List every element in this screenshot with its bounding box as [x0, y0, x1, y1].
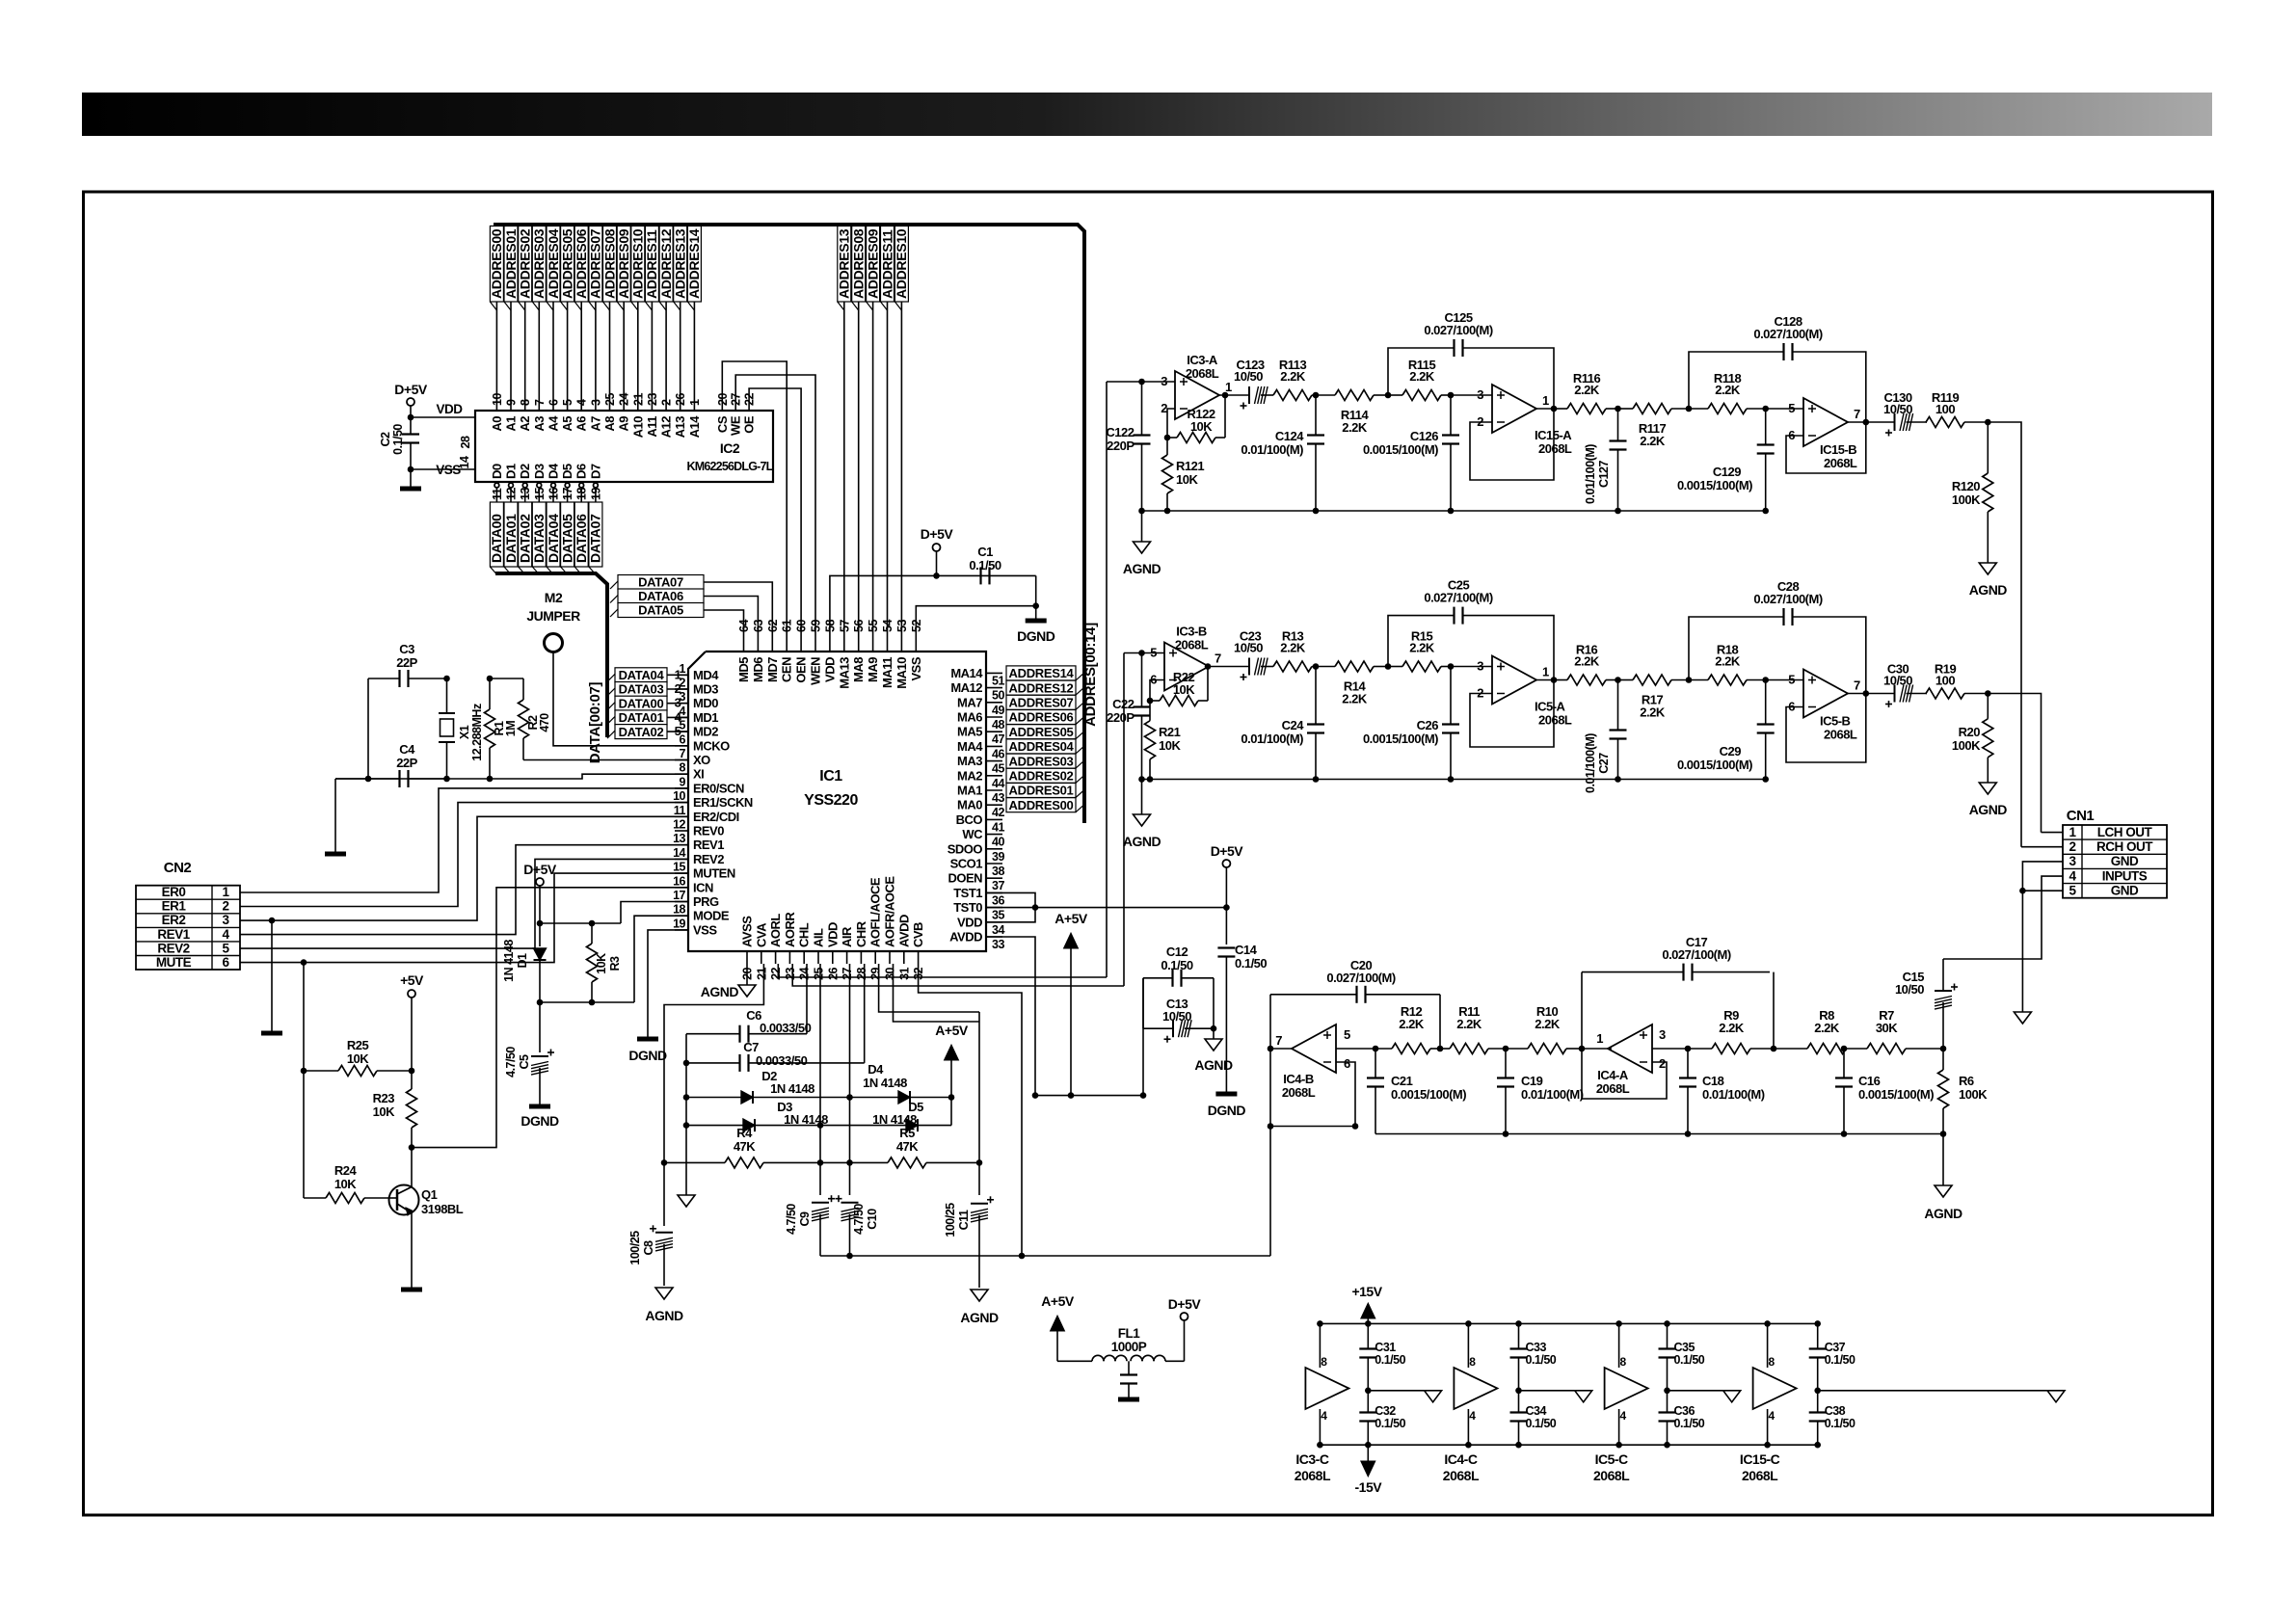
svg-text:33: 33: [992, 938, 1004, 951]
wire REV0 branch: [269, 918, 276, 924]
node ADDRES02 (IC1 MA): [1006, 768, 1076, 783]
node ADDRES11 (bus tap to IC2 A11): [651, 225, 653, 410]
svg-text:REV2: REV2: [693, 852, 724, 866]
svg-text:9: 9: [680, 775, 686, 788]
ground AGND (AVSS pin20): [746, 964, 748, 985]
svg-text:19: 19: [673, 917, 685, 930]
svg-text:C26: C26: [1417, 718, 1439, 732]
svg-text:10K: 10K: [1176, 472, 1198, 487]
wire row2 input: [1123, 652, 1125, 654]
wire row3 right chain: [1652, 1048, 1688, 1050]
wire IC5-A feedback box: [1470, 680, 1554, 748]
node ADDRES12 (bus tap to IC2 A12): [665, 225, 667, 410]
svg-text:PRG: PRG: [693, 894, 719, 909]
svg-text:C124: C124: [1275, 429, 1304, 443]
svg-text:10/50: 10/50: [1895, 982, 1924, 997]
node ADDRES01 (bus tap to IC2 A1): [510, 225, 512, 410]
capacitor C11 100/25: [971, 1203, 988, 1205]
svg-text:CS: CS: [715, 415, 730, 433]
svg-text:100/25: 100/25: [944, 1203, 957, 1237]
svg-text:MUTE: MUTE: [156, 955, 192, 970]
svg-text:2: 2: [1659, 1056, 1666, 1071]
node ADDRES08 (bus tap to IC2 A8): [609, 225, 611, 410]
node ADDRES14 (IC1 MA): [1006, 666, 1076, 680]
svg-text:C38: C38: [1825, 1404, 1846, 1418]
svg-text:REV0: REV0: [693, 824, 724, 838]
svg-text:DATA[00:07]: DATA[00:07]: [587, 681, 603, 763]
svg-text:ADDRES12: ADDRES12: [658, 228, 674, 299]
svg-text:7: 7: [1854, 678, 1860, 693]
ground AGND (C8): [655, 1288, 673, 1299]
svg-text:1: 1: [1542, 665, 1549, 679]
capacitor C22 220P: [1142, 652, 1165, 654]
svg-text:2068L: 2068L: [1593, 1468, 1630, 1483]
svg-text:IC15-B: IC15-B: [1820, 442, 1856, 457]
svg-text:ADDRES01: ADDRES01: [503, 228, 519, 299]
wire VDD58 / C1 rail: [830, 575, 1036, 636]
svg-text:0.01/100(M): 0.01/100(M): [1241, 732, 1303, 746]
svg-text:28: 28: [855, 967, 868, 979]
svg-text:MD3: MD3: [693, 682, 718, 697]
svg-text:D+5V: D+5V: [394, 382, 428, 397]
wire D1/R3 top: [540, 922, 621, 924]
svg-text:C22: C22: [1112, 697, 1135, 711]
node ADDRES02 (bus tap to IC2 A2): [524, 225, 526, 410]
svg-text:2068L: 2068L: [1186, 366, 1219, 381]
svg-text:100K: 100K: [1952, 738, 1981, 753]
svg-text:DATA00: DATA00: [619, 696, 664, 710]
svg-text:D+5V: D+5V: [1211, 843, 1244, 859]
svg-text:MA0: MA0: [957, 798, 982, 812]
wire REV2 to IC1 pin14: [240, 859, 688, 948]
svg-text:D7: D7: [588, 464, 602, 479]
svg-text:MA10: MA10: [894, 657, 909, 689]
svg-text:DATA02: DATA02: [518, 514, 533, 563]
svg-text:VSS: VSS: [909, 656, 923, 680]
svg-text:D+5V: D+5V: [921, 526, 954, 542]
svg-text:36: 36: [992, 893, 1004, 907]
capacitor C32 0.1/50: [1359, 1411, 1376, 1413]
svg-text:27: 27: [841, 967, 854, 979]
svg-text:ADDRES02: ADDRES02: [1009, 769, 1074, 784]
svg-text:41: 41: [992, 820, 1004, 834]
svg-text:A2: A2: [518, 416, 532, 432]
ground (decoupling C33/C34): [1519, 1390, 1584, 1392]
node DATA03 (IC1 pin 2): [615, 682, 667, 697]
wire IC15-A feedback box: [1470, 409, 1554, 480]
svg-text:2.2K: 2.2K: [1535, 1017, 1561, 1031]
ground (decoupling C37/C38): [1818, 1390, 2056, 1392]
resistor R117 2.2K: [1618, 408, 1634, 410]
node DATA07 (IC2 D7): [594, 483, 599, 488]
svg-text:IC5-A: IC5-A: [1535, 700, 1566, 714]
svg-text:C11: C11: [957, 1210, 971, 1230]
svg-text:2.2K: 2.2K: [1574, 383, 1600, 397]
svg-text:6: 6: [1344, 1056, 1350, 1071]
power -15V: [1367, 1445, 1369, 1461]
svg-text:ADDRES13: ADDRES13: [837, 228, 852, 299]
wire AVDD33 to A+5V rail: [986, 937, 1035, 1096]
svg-text:DATA05: DATA05: [638, 603, 683, 618]
node ADDRES06 (bus tap to IC2 A6): [580, 225, 582, 410]
op-amp IC3-A 2068L: [1175, 371, 1219, 419]
svg-text:8: 8: [519, 399, 532, 406]
op-amp IC4-A 2068L: [1608, 1024, 1652, 1073]
svg-text:R121: R121: [1176, 459, 1204, 473]
svg-text:IC2: IC2: [720, 440, 740, 456]
svg-text:50: 50: [992, 689, 1004, 703]
svg-text:2068L: 2068L: [1824, 456, 1857, 470]
wire M2 to MCKO: [553, 652, 688, 746]
svg-text:4: 4: [1321, 1409, 1327, 1423]
node DATA06 (IC2 D6): [579, 483, 584, 488]
svg-text:4: 4: [575, 399, 589, 406]
svg-text:D1: D1: [504, 464, 519, 479]
svg-text:17: 17: [673, 889, 685, 902]
svg-text:29: 29: [869, 967, 883, 979]
svg-text:C14: C14: [1235, 943, 1258, 957]
svg-text:47: 47: [992, 732, 1004, 746]
svg-text:DGND: DGND: [521, 1113, 559, 1129]
svg-text:0.1/50: 0.1/50: [391, 424, 405, 455]
svg-text:2.2K: 2.2K: [1409, 641, 1435, 655]
svg-text:43: 43: [992, 791, 1004, 805]
svg-text:RCH OUT: RCH OUT: [2096, 839, 2153, 854]
resistor R13 2.2K: [1272, 666, 1274, 668]
svg-text:1N 4148: 1N 4148: [863, 1076, 907, 1090]
node DATA01 (IC2 D1): [509, 483, 514, 488]
svg-text:2.2K: 2.2K: [1280, 641, 1306, 655]
svg-text:ADDRES00: ADDRES00: [489, 228, 504, 299]
svg-text:AVDD: AVDD: [896, 915, 911, 947]
svg-text:MA1: MA1: [957, 784, 982, 798]
svg-text:JUMPER: JUMPER: [526, 608, 580, 624]
svg-text:ADDRES03: ADDRES03: [1009, 754, 1074, 768]
capacitor C23 10/50: [1209, 666, 1249, 668]
svg-text:MODE: MODE: [693, 909, 730, 923]
capacitor C36 0.1/50: [1659, 1411, 1676, 1413]
ground (FL1): [1118, 1397, 1139, 1402]
svg-text:D4: D4: [868, 1062, 884, 1077]
svg-text:A+5V: A+5V: [935, 1023, 969, 1038]
svg-text:220P: 220P: [1107, 710, 1135, 725]
svg-text:AGND: AGND: [1123, 561, 1161, 576]
wire ER1 to IC1 pin10: [240, 803, 688, 907]
svg-text:ADDRES09: ADDRES09: [616, 228, 631, 299]
node DATA04 (IC2 D4): [551, 483, 556, 488]
svg-text:25: 25: [813, 967, 826, 979]
op-amp IC5-B 2068L: [1766, 679, 1803, 681]
wire TST1/TST0/VDD to D+5V: [986, 892, 1035, 921]
node ADDRES13 (bus tap to IC1): [843, 225, 845, 636]
power D+5V (C1): [933, 544, 941, 551]
svg-text:4: 4: [1469, 1409, 1476, 1423]
wire ER2 to IC1 pin11: [240, 816, 688, 920]
diode D1 1N4148: [539, 923, 541, 946]
svg-text:3: 3: [680, 690, 686, 704]
capacitor C9 4.7/50: [812, 1202, 829, 1204]
capacitor C2: [402, 433, 419, 435]
svg-text:-15V: -15V: [1355, 1479, 1383, 1495]
svg-text:VDD: VDD: [825, 922, 840, 947]
node ADDRES01 (IC1 MA): [1006, 784, 1076, 798]
power D+5V (TST): [1222, 860, 1230, 867]
svg-text:2.2K: 2.2K: [1280, 369, 1306, 384]
wire MUTE to IC1 pin15 MUTEN: [240, 873, 688, 963]
svg-text:AOFR/AOCE: AOFR/AOCE: [883, 876, 897, 947]
svg-text:2068L: 2068L: [1596, 1081, 1630, 1096]
svg-text:62: 62: [766, 620, 780, 632]
ground (decoupling C31/C32): [1368, 1390, 1432, 1392]
svg-text:MD2: MD2: [693, 725, 718, 739]
svg-text:10/50: 10/50: [1162, 1009, 1191, 1024]
capacitor C18 0.01/100(M): [1679, 1077, 1696, 1078]
svg-text:0.01/100(M): 0.01/100(M): [1584, 733, 1597, 793]
wire MODE pin18: [634, 916, 688, 1002]
node DATA03 (IC2 D3): [537, 483, 542, 488]
svg-text:10: 10: [491, 393, 504, 406]
svg-text:0.1/50: 0.1/50: [1825, 1353, 1855, 1367]
node DATA02 (IC1 pin 5): [615, 725, 667, 739]
svg-text:2.2K: 2.2K: [1715, 654, 1741, 669]
svg-text:MA7: MA7: [957, 695, 982, 709]
svg-text:A10: A10: [630, 416, 645, 439]
node ADDRES09 (bus tap to IC2 A9): [623, 225, 625, 410]
svg-text:AGND: AGND: [1194, 1057, 1233, 1073]
capacitor C28 0.027/100(M) (feedback): [1689, 617, 1784, 680]
wire IC15-B feedback box: [1786, 422, 1866, 473]
power A+5V (diodes): [950, 1098, 952, 1126]
svg-text:11: 11: [674, 804, 686, 817]
svg-text:C19: C19: [1521, 1074, 1543, 1088]
svg-text:57: 57: [838, 620, 851, 632]
ground AGND (row3): [1942, 1134, 1944, 1186]
svg-text:ADDRES04: ADDRES04: [546, 228, 561, 299]
ground (Q1): [401, 1288, 422, 1292]
svg-text:ADDRES11: ADDRES11: [879, 229, 894, 299]
svg-text:ADDRES01: ADDRES01: [1009, 784, 1074, 798]
svg-text:ICN: ICN: [693, 880, 713, 894]
svg-text:IC3-B: IC3-B: [1176, 625, 1207, 639]
svg-text:CN2: CN2: [164, 860, 192, 876]
svg-text:30K: 30K: [1876, 1021, 1898, 1035]
svg-text:8: 8: [1469, 1355, 1476, 1369]
wire AIL pin25 column: [819, 964, 821, 1195]
node ADDRES14 (bus tap to IC2 A14): [693, 225, 695, 410]
svg-text:0.1/50: 0.1/50: [1161, 958, 1192, 972]
svg-text:2.2K: 2.2K: [1574, 654, 1600, 669]
resistor R113 2.2K: [1272, 394, 1274, 396]
svg-text:WE: WE: [729, 415, 743, 436]
capacitor C38 0.1/50: [1809, 1411, 1827, 1413]
svg-text:IC15-C: IC15-C: [1740, 1451, 1780, 1467]
svg-text:4: 4: [222, 927, 229, 942]
svg-text:0.027/100(M): 0.027/100(M): [1424, 323, 1492, 337]
svg-text:XI: XI: [693, 767, 704, 782]
svg-text:0.0015/100(M): 0.0015/100(M): [1858, 1087, 1934, 1102]
svg-text:26: 26: [826, 967, 840, 979]
svg-text:100: 100: [1936, 674, 1955, 688]
svg-text:D2: D2: [518, 464, 532, 479]
svg-text:WC: WC: [962, 827, 983, 841]
svg-text:0.1/50: 0.1/50: [1674, 1417, 1705, 1430]
svg-text:A8: A8: [602, 416, 617, 432]
svg-text:C37: C37: [1825, 1341, 1846, 1354]
wire C6/C7 left common: [685, 1034, 687, 1195]
node ADDRES07 (IC1 MA): [1006, 695, 1076, 709]
svg-text:SDOO: SDOO: [948, 841, 983, 856]
svg-text:C7: C7: [743, 1040, 759, 1054]
svg-text:XO: XO: [693, 753, 710, 767]
svg-text:VDD: VDD: [957, 915, 982, 929]
svg-text:54: 54: [881, 620, 894, 632]
svg-text:10K: 10K: [347, 1051, 369, 1066]
wire IC4-B feedback box: [1270, 1062, 1355, 1127]
svg-text:5: 5: [2069, 884, 2076, 898]
svg-text:0.1/50: 0.1/50: [1375, 1417, 1405, 1430]
capacitor C127 0.01/100(M): [1610, 439, 1627, 441]
ground AGND (R120): [1979, 563, 1996, 574]
svg-text:3: 3: [1659, 1027, 1666, 1042]
svg-text:4: 4: [680, 705, 686, 718]
svg-text:DATA01: DATA01: [503, 514, 519, 563]
svg-text:REV2: REV2: [157, 941, 189, 955]
resistor R1 1M: [489, 678, 491, 709]
capacitor C30 10/50: [1848, 693, 1866, 695]
svg-text:DGND: DGND: [628, 1048, 667, 1063]
capacitor C31 0.1/50: [1359, 1347, 1376, 1349]
svg-text:DATA04: DATA04: [546, 514, 561, 563]
svg-text:IC5-B: IC5-B: [1820, 714, 1851, 729]
svg-text:IC4-A: IC4-A: [1597, 1068, 1629, 1082]
svg-text:23: 23: [784, 967, 797, 979]
node DATA00 (IC2 D0): [494, 483, 499, 488]
svg-text:A+5V: A+5V: [1055, 911, 1088, 926]
svg-text:10/50: 10/50: [1883, 674, 1912, 688]
svg-text:39: 39: [992, 850, 1004, 864]
svg-text:C34: C34: [1526, 1404, 1547, 1418]
svg-text:R21: R21: [1159, 725, 1181, 739]
svg-text:0.1/50: 0.1/50: [1375, 1353, 1405, 1367]
svg-text:60: 60: [795, 620, 809, 632]
resistor R119 100: [1926, 421, 1927, 423]
resistor R115 2.2K: [1388, 394, 1402, 396]
svg-text:AGND: AGND: [1924, 1206, 1962, 1221]
node ADDRES04 (IC1 MA): [1006, 739, 1076, 754]
svg-text:ADDRES03: ADDRES03: [531, 228, 547, 299]
op-amp IC15-B 2068L: [1766, 408, 1803, 410]
svg-text:45: 45: [992, 762, 1004, 776]
svg-text:Q1: Q1: [421, 1187, 438, 1202]
svg-text:10K: 10K: [1190, 419, 1213, 434]
svg-text:2068L: 2068L: [1538, 713, 1572, 728]
svg-text:23: 23: [646, 393, 659, 406]
svg-text:C27: C27: [1597, 753, 1611, 774]
svg-text:C21: C21: [1391, 1074, 1413, 1088]
svg-text:ADDRES07: ADDRES07: [588, 228, 603, 299]
svg-text:1: 1: [1225, 380, 1232, 394]
svg-text:VSS: VSS: [693, 922, 717, 937]
power D+5V (D1): [536, 878, 544, 886]
svg-text:0.01/100(M): 0.01/100(M): [1584, 444, 1597, 504]
svg-text:2: 2: [680, 677, 686, 690]
svg-text:38: 38: [992, 865, 1004, 878]
svg-text:AIR: AIR: [840, 926, 854, 947]
svg-text:A5: A5: [560, 416, 574, 432]
svg-text:0.0015/100(M): 0.0015/100(M): [1391, 1087, 1466, 1102]
svg-text:IC4-C: IC4-C: [1444, 1451, 1477, 1467]
ground AGND (C6/C7): [678, 1195, 695, 1207]
svg-text:47K: 47K: [896, 1139, 919, 1154]
svg-text:ADDRES10: ADDRES10: [894, 228, 909, 299]
svg-text:CVA: CVA: [754, 922, 768, 947]
svg-text:2068L: 2068L: [1295, 1468, 1331, 1483]
svg-text:3: 3: [1477, 387, 1483, 402]
svg-text:5: 5: [1788, 401, 1795, 415]
svg-text:4.7/50: 4.7/50: [852, 1204, 866, 1235]
wire A+5V rail: [1035, 1095, 1143, 1097]
svg-text:470: 470: [538, 713, 551, 732]
resistor R2 470: [522, 678, 524, 700]
capacitor C122 220P: [1142, 381, 1176, 383]
svg-text:35: 35: [992, 909, 1004, 922]
svg-text:DATA01: DATA01: [619, 710, 664, 725]
svg-text:DATA03: DATA03: [619, 682, 664, 697]
node DATA00 (IC1 pin 3): [615, 696, 667, 710]
svg-text:0.0015/100(M): 0.0015/100(M): [1363, 442, 1438, 457]
svg-text:R20: R20: [1959, 725, 1981, 739]
capacitor C34 0.1/50: [1510, 1411, 1528, 1413]
svg-text:AGND: AGND: [960, 1310, 999, 1325]
capacitor C128 0.027/100(M) (feedback): [1689, 352, 1784, 409]
svg-text:4.7/50: 4.7/50: [785, 1204, 798, 1235]
svg-text:6: 6: [222, 955, 229, 970]
svg-text:DATA06: DATA06: [574, 514, 589, 563]
svg-text:DATA04: DATA04: [619, 668, 665, 682]
svg-text:LCH OUT: LCH OUT: [2097, 825, 2153, 839]
svg-text:ER1/SCKN: ER1/SCKN: [693, 795, 753, 810]
IC2 KM62256DLG-7L SRAM: [475, 411, 773, 482]
capacitor C130 10/50: [1848, 421, 1866, 423]
svg-text:C18: C18: [1702, 1074, 1724, 1088]
svg-text:A14: A14: [687, 415, 702, 439]
svg-text:MUTEN: MUTEN: [693, 866, 735, 881]
node ADDRES07 (bus tap to IC2 A7): [595, 225, 597, 410]
svg-text:5: 5: [561, 399, 574, 406]
svg-text:10K: 10K: [334, 1177, 357, 1191]
svg-text:10/50: 10/50: [1234, 641, 1263, 655]
svg-text:0.1/50: 0.1/50: [969, 558, 1001, 572]
svg-text:48: 48: [992, 718, 1004, 732]
svg-text:C32: C32: [1375, 1404, 1396, 1418]
node ADDRES00 (IC1 MA): [1006, 798, 1076, 812]
wire Q1 collector: [411, 1148, 413, 1187]
svg-text:12: 12: [673, 818, 685, 832]
svg-text:D0: D0: [490, 464, 504, 479]
node DATA05 (IC2 D5): [565, 483, 570, 488]
svg-text:ADDRES10: ADDRES10: [630, 228, 646, 299]
wire R2 to XO pin7: [523, 759, 688, 761]
node DATA02 (IC2 D2): [522, 483, 527, 488]
ground (crystal): [334, 779, 336, 852]
svg-text:VDD: VDD: [436, 402, 463, 416]
capacitor C24 0.01/100(M): [1307, 723, 1324, 725]
svg-text:56: 56: [852, 620, 866, 632]
svg-text:2068L: 2068L: [1742, 1468, 1778, 1483]
svg-text:4: 4: [1620, 1409, 1627, 1423]
svg-text:INPUTS: INPUTS: [2102, 868, 2148, 883]
svg-text:R25: R25: [347, 1038, 369, 1052]
